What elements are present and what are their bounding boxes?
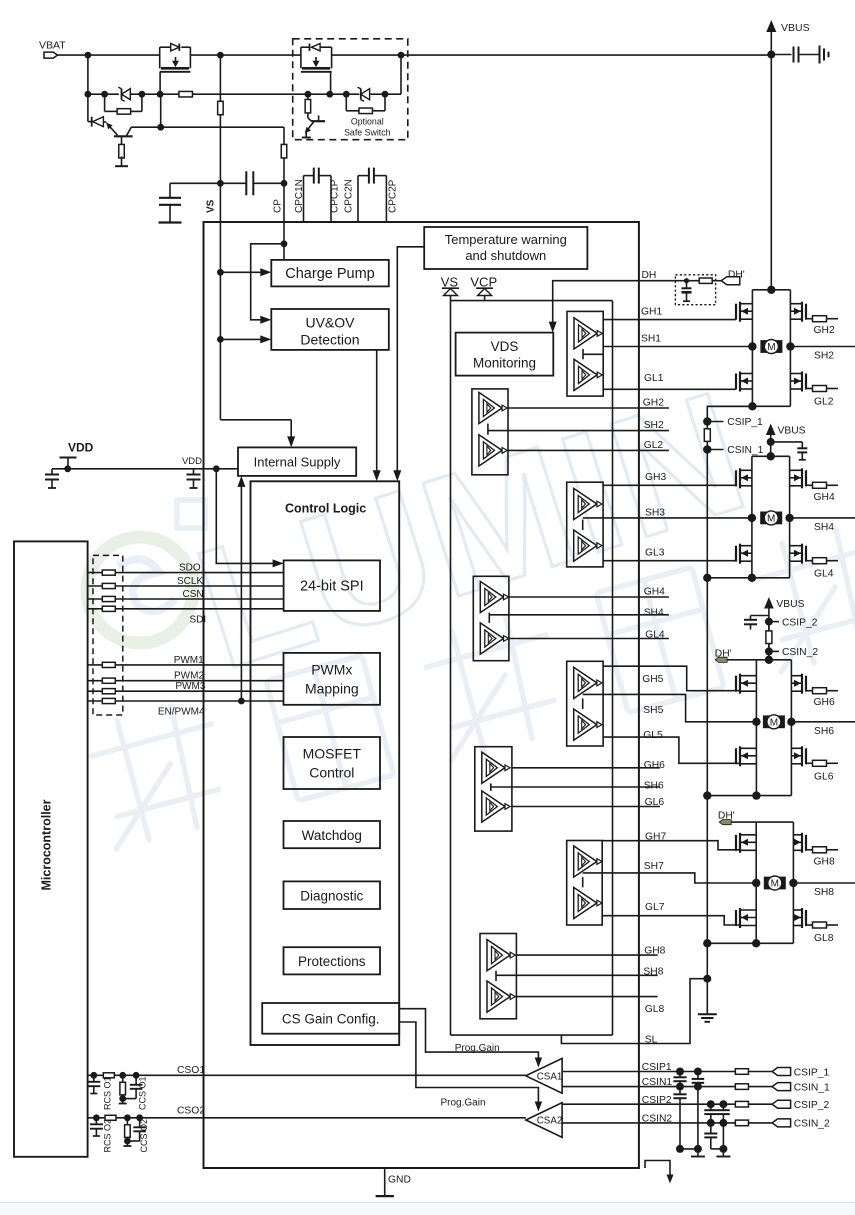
node SH left bridge 2 (748, 514, 756, 522)
resistor PWM3 series (102, 689, 115, 694)
wire filter2 gnd (711, 1148, 724, 1150)
svg-text:GL5: GL5 (643, 730, 663, 741)
svg-text:Internal Supply: Internal Supply (254, 454, 341, 469)
capacitor C8 DH (686, 281, 688, 289)
capacitor C6 VDD left (51, 469, 53, 475)
wire EN/PWM4 (88, 700, 284, 702)
buffer U8B (487, 981, 510, 1012)
svg-text:CSO1: CSO1 (177, 1065, 205, 1076)
svg-text:GL2: GL2 (814, 397, 834, 408)
transistor low-side right bridge 4 (805, 910, 807, 926)
transistor Q1 reverse-protection PMOS (159, 47, 161, 55)
bridge 1 top rail (752, 289, 790, 291)
svg-text:CSIN_2: CSIN_2 (782, 647, 818, 658)
motor bridge 3 (763, 715, 785, 728)
tag DH' top (721, 277, 740, 285)
block MOSFET Control (284, 737, 381, 789)
svg-text:CSIP1: CSIP1 (642, 1062, 672, 1073)
svg-text:EN/PWM4: EN/PWM4 (158, 707, 205, 718)
node DH filter (684, 278, 689, 283)
wire GL4 (509, 638, 669, 640)
svg-text:DH': DH' (715, 648, 732, 659)
dotted box DH filter (675, 275, 715, 305)
svg-text:Control Logic: Control Logic (285, 502, 366, 516)
node rail at VS resistor (217, 52, 224, 59)
wire SH6 out (791, 721, 855, 723)
wire U8 SH tap (495, 971, 497, 981)
wire SH2 out (790, 346, 855, 348)
node RCS O2 gnd (124, 1138, 131, 1145)
VBAT tag (44, 52, 58, 58)
wire SH8 out (793, 882, 855, 884)
bridge 4 bottom rail (707, 942, 793, 944)
resistor R5 VS feed (219, 55, 221, 101)
IC main outline (204, 222, 639, 1168)
wire arrow into UVOV 2 (220, 338, 260, 340)
node EN branch (238, 698, 245, 705)
watermark chinese characters (84, 520, 855, 849)
svg-text:SH2: SH2 (644, 420, 664, 431)
resistor CSN series (102, 596, 115, 601)
resistor gate GH6 (806, 690, 813, 692)
svg-text:GL2: GL2 (644, 440, 664, 451)
transistor high-side left bridge 2 (735, 470, 737, 486)
wire U2 SH tap (487, 424, 489, 435)
gate driver pair U5 box (567, 661, 603, 746)
wire GH5 (603, 666, 740, 691)
transistor high-side left bridge 3 (735, 676, 737, 692)
ground filter2 (722, 1149, 724, 1157)
wire CP internal (283, 222, 285, 260)
motor bridge 1 (760, 340, 782, 353)
svg-text:GL6: GL6 (814, 771, 834, 782)
transistor high-side right bridge 2 (805, 470, 807, 486)
resistor R3 (345, 94, 347, 111)
node safe gate C (343, 91, 350, 98)
node CSIP1 filter a (676, 1068, 684, 1076)
resistor PWM2 series (102, 678, 115, 683)
wire SH1 (603, 346, 752, 348)
resistor gate GL6 (806, 762, 813, 764)
svg-text:24-bit SPI: 24-bit SPI (300, 579, 364, 595)
zener D1 (122, 89, 131, 100)
block CS Gain Config (262, 1003, 399, 1034)
wire CSIN2 (562, 1122, 735, 1124)
node filter1 gnd b (694, 1145, 702, 1153)
svg-text:Control: Control (309, 765, 354, 781)
svg-text:CSN: CSN (183, 589, 204, 600)
svg-text:CPC2P: CPC2P (388, 179, 399, 213)
gate driver pair U6 box (475, 747, 512, 831)
svg-text:RCS O2: RCS O2 (103, 1119, 113, 1153)
wire SH4 out (790, 517, 855, 519)
node rail at safe-switch out (398, 52, 405, 59)
buffer U6B (482, 791, 505, 822)
bridge 3 top rail (756, 659, 791, 661)
capacitor C5 VBUS (771, 54, 791, 56)
wire SDO (88, 572, 284, 574)
wire VDD rail (52, 468, 238, 470)
node bottom rail bridge 1 (748, 402, 756, 410)
node CP branch (281, 240, 288, 247)
svg-text:VDD: VDD (68, 441, 94, 455)
node CSIN_2 (765, 647, 773, 655)
buffer U3A (574, 488, 597, 519)
wire collector to CP node (157, 124, 164, 131)
dashed box series resistors (93, 555, 123, 715)
svg-text:GL4: GL4 (814, 569, 834, 580)
block Watchdog (284, 821, 381, 848)
svg-text:Monitoring: Monitoring (473, 356, 536, 371)
bridge 4 right leg (792, 822, 794, 943)
diode D2 (88, 121, 92, 123)
wire GL8 (516, 996, 657, 998)
svg-text:CCS O1: CCS O1 (138, 1076, 148, 1110)
node VS to UVOV (217, 336, 224, 343)
wire U1 SH tap (582, 349, 584, 359)
pad ground step (645, 1161, 670, 1178)
transistor high-side right bridge 3 (805, 676, 807, 692)
node gate net C (139, 91, 146, 98)
svg-text:VCP: VCP (470, 275, 497, 290)
node rail B2 (703, 574, 711, 582)
capacitor C10 VBUS b3 (751, 615, 769, 617)
svg-text:PWM1: PWM1 (174, 655, 204, 666)
bridge 1 left leg (751, 290, 753, 407)
block Temperature warning (424, 227, 587, 269)
svg-text:SH6: SH6 (644, 781, 664, 792)
svg-text:DH: DH (642, 270, 657, 281)
wire SH5 (603, 694, 756, 721)
tag CSIN_2 (772, 1119, 791, 1127)
resistor CSO1 series (103, 1073, 114, 1078)
node CSIP2 filter b (719, 1100, 727, 1108)
wire filter1 gnd (680, 1148, 698, 1150)
svg-text:CPC2N: CPC2N (344, 179, 355, 213)
wire SH3 (603, 517, 752, 519)
svg-text:SH8: SH8 (814, 887, 834, 898)
node safe gate A (305, 91, 312, 98)
node CSIN1 filter a (676, 1083, 684, 1091)
svg-text:GH6: GH6 (814, 697, 835, 708)
buffer U6A (482, 752, 505, 783)
svg-text:GH2: GH2 (814, 325, 835, 336)
capacitor C1 VS bulk (170, 182, 220, 184)
transistor low-side left bridge 1 (735, 374, 737, 390)
safe switch dashed box (293, 39, 408, 140)
capacitor C4 flying 2 (357, 176, 359, 222)
wire prog gain 1 (399, 1009, 538, 1061)
svg-text:SH1: SH1 (641, 334, 661, 345)
ground RCS O1 (122, 1099, 124, 1104)
svg-text:GH4: GH4 (814, 492, 835, 503)
svg-text:GH5: GH5 (642, 674, 663, 685)
svg-text:Watchdog: Watchdog (302, 828, 362, 843)
svg-text:M: M (770, 717, 778, 728)
wire CSIP2 (562, 1103, 735, 1105)
node CSIP_2 (765, 618, 773, 626)
wire CSO1 (88, 1074, 526, 1076)
buffer U4A (480, 581, 503, 612)
capacitor C13 cm 1b (679, 1087, 681, 1095)
svg-text:CSIN_1: CSIN_1 (727, 445, 763, 456)
wire PWM1 (88, 664, 284, 666)
ground filter1 (697, 1149, 699, 1157)
block Control Logic (251, 481, 400, 1045)
block UV&OV Detection (271, 309, 389, 350)
wire CSO2 (88, 1117, 526, 1119)
svg-text:CSO2: CSO2 (177, 1106, 205, 1117)
resistor R6 CP feed (283, 127, 285, 144)
capacitor C3 flying 1 (303, 176, 305, 222)
resistor R4 (307, 94, 309, 99)
node CSIP_1 (703, 417, 711, 425)
block Charge Pump (271, 260, 389, 287)
resistor R1 gate (104, 94, 106, 111)
svg-text:VBUS: VBUS (776, 599, 804, 610)
svg-text:MOSFET: MOSFET (303, 746, 362, 762)
node CSIN2 filter a (707, 1119, 715, 1127)
svg-text:CSIP_1: CSIP_1 (794, 1067, 830, 1078)
svg-text:Charge Pump: Charge Pump (285, 266, 374, 282)
wire rail right (332, 54, 772, 56)
node VS to charge pump (217, 269, 224, 276)
wire VBUS down (770, 55, 772, 290)
svg-text:Microcontroller: Microcontroller (40, 799, 54, 890)
node gate net D (157, 91, 164, 98)
resistor R2 base (121, 136, 123, 146)
svg-text:CS Gain Config.: CS Gain Config. (282, 1012, 380, 1027)
node CSO1 c (133, 1072, 140, 1079)
block 24-bit SPI (284, 560, 380, 611)
transistor low-side left bridge 2 (735, 546, 737, 562)
node rail B3 (703, 791, 711, 799)
node CSO1 b (119, 1072, 126, 1079)
zener D3 (361, 89, 370, 100)
svg-text:DH': DH' (728, 270, 745, 281)
bridge 2 left leg (751, 456, 753, 578)
gate driver pair U4 box (473, 576, 509, 660)
svg-text:CPC1P: CPC1P (330, 179, 341, 213)
svg-text:CPC1N: CPC1N (294, 179, 305, 213)
wire U7 SH tap (582, 877, 584, 887)
bridge 1 right leg (789, 290, 791, 407)
VS terminal symbol (444, 289, 458, 296)
wire SL (561, 979, 707, 1044)
bridge 2 bottom rail (707, 577, 789, 579)
capacitor C14 diff 2 (710, 1104, 712, 1110)
wire CSIP1 (562, 1071, 735, 1073)
wire GH3 (603, 484, 736, 486)
capacitor CCS O1 (135, 1075, 137, 1085)
transistor high-side left bridge 4 (735, 835, 737, 851)
svg-text:GL7: GL7 (645, 902, 665, 913)
wire SH8 (516, 974, 657, 976)
node VBAT junction (85, 52, 92, 59)
wire VDD to SPI (216, 469, 273, 564)
node SH right bridge 4 (789, 879, 797, 887)
wire rail mid (190, 54, 301, 56)
svg-text:SH4: SH4 (814, 522, 834, 533)
node CSIP1 filter b (694, 1068, 702, 1076)
resistor CSIP2 series (735, 1101, 748, 1107)
wire UVOV to control logic (376, 350, 378, 475)
resistor RCS O1 (122, 1075, 124, 1082)
tag CSIN_1 (772, 1083, 791, 1091)
wire Q3 gate (330, 72, 332, 94)
svg-text:Safe Switch: Safe Switch (344, 128, 391, 138)
svg-text:SH2: SH2 (814, 351, 834, 362)
svg-text:CSA2: CSA2 (537, 1116, 563, 1127)
wire SCLK (88, 585, 284, 587)
svg-text:Diagnostic: Diagnostic (300, 888, 363, 903)
wire SH2 (508, 430, 669, 432)
svg-text:DH': DH' (718, 811, 735, 822)
wire GH6 (512, 767, 660, 769)
resistor SCLK series (102, 583, 115, 588)
transistor high-side right bridge 1 (805, 304, 807, 320)
node SH right bridge 2 (785, 514, 793, 522)
wire U6 SH tap (490, 783, 492, 791)
svg-text:UV&OV: UV&OV (305, 315, 355, 331)
node SH left bridge 1 (748, 342, 756, 350)
bridge 2 right leg (789, 456, 791, 578)
buffer U5B (574, 709, 597, 740)
bridge 2 top rail (752, 455, 790, 457)
bridge 4 top rail (756, 821, 793, 823)
wire EN to internal supply (240, 482, 242, 701)
VBUS arrow (770, 26, 772, 55)
node CSO2 a (93, 1114, 100, 1121)
resistor R8 gate series (179, 91, 193, 97)
wire GH4 (509, 596, 669, 598)
amplifier CSA2 (526, 1103, 562, 1138)
node CSIN2 filter b (719, 1119, 727, 1127)
buffer U7B (574, 887, 597, 918)
wire prog gain 2 (399, 1022, 538, 1105)
wire GH2 (508, 407, 669, 409)
wire arrow into charge pump (220, 271, 260, 273)
node CSIN1 filter b (694, 1083, 702, 1091)
ground VBUS rotated (819, 46, 821, 64)
svg-text:CSIN_1: CSIN_1 (794, 1082, 830, 1093)
capacitor C16 cm 2b (710, 1123, 712, 1134)
svg-text:GH1: GH1 (641, 307, 662, 318)
buffer U5A (574, 667, 597, 698)
wire GL1 (603, 388, 736, 390)
ground Q2 (115, 165, 128, 167)
page divider (0, 1202, 855, 1204)
svg-text:Detection: Detection (300, 332, 359, 348)
node VBUS b2 cap (767, 438, 775, 446)
gate driver pair U2 box (472, 389, 508, 475)
resistor CSIN2 series (735, 1120, 748, 1126)
wire U4 SH tap (488, 613, 490, 623)
svg-text:GH2: GH2 (643, 397, 664, 408)
transistor high-side right bridge 4 (805, 835, 807, 851)
capacitor C7 VDD pin (193, 469, 195, 475)
svg-text:SDO: SDO (179, 563, 201, 574)
node SH right bridge 3 (787, 718, 795, 726)
ground C1 (159, 221, 182, 223)
svg-text:CSIP_2: CSIP_2 (782, 617, 818, 628)
resistor Rsense1 (706, 422, 708, 429)
svg-text:PWM3: PWM3 (175, 681, 205, 692)
capacitor C2 CP pump (220, 182, 246, 184)
wire SH4 (509, 614, 669, 616)
wire VBAT rail (58, 54, 160, 56)
gate driver pair U7 box (567, 841, 603, 926)
svg-text:SH3: SH3 (645, 507, 665, 518)
node gate net B (101, 91, 108, 98)
svg-text:M: M (767, 342, 775, 353)
ground RCS O2 (126, 1141, 128, 1146)
resistor PWM1 series (102, 662, 115, 667)
svg-text:SH5: SH5 (643, 705, 663, 716)
block Protections (284, 947, 381, 974)
wire common source rail (706, 450, 708, 979)
node CSIN_2 rail (765, 656, 773, 664)
svg-text:GL8: GL8 (814, 933, 834, 944)
wire GH1 (603, 319, 736, 321)
gate driver pair U1 box (567, 311, 603, 396)
wire PWM3 (88, 690, 284, 692)
resistor SDI series (102, 606, 115, 611)
svg-text:SCLK: SCLK (177, 576, 203, 587)
wire SDI (88, 608, 284, 610)
wire DH internal (553, 281, 639, 326)
resistor RCS O2 (126, 1118, 128, 1125)
node CP cap (281, 180, 288, 187)
VDD terminal (60, 457, 77, 459)
svg-text:CSIP_2: CSIP_2 (794, 1100, 830, 1111)
node bottom rail bridge 3 (752, 791, 760, 799)
ground Q4 (302, 137, 311, 139)
bridge 3 bottom rail (707, 795, 791, 797)
bridge 4 left leg (755, 822, 757, 943)
node VS cap (217, 180, 224, 187)
block Diagnostic (284, 881, 381, 909)
svg-text:SL: SL (645, 1035, 658, 1046)
wire temp to control logic (397, 247, 424, 475)
GND stub (384, 1168, 386, 1196)
svg-text:VDD: VDD (182, 456, 202, 467)
bridge 3 right leg (790, 660, 792, 796)
svg-text:GH8: GH8 (644, 945, 665, 956)
svg-text:VS: VS (441, 275, 459, 290)
resistor R7 DH (699, 278, 712, 283)
resistor gate GH8 (806, 849, 813, 851)
node SL ground (703, 975, 711, 983)
resistor EN/PWM4 series (102, 698, 115, 703)
transistor low-side left bridge 3 (735, 748, 737, 764)
motor bridge 2 (760, 512, 782, 525)
svg-text:GH7: GH7 (645, 831, 666, 842)
bridge 3 left leg (755, 660, 757, 796)
resistor gate GL8 (806, 924, 813, 926)
buffer U2A (479, 392, 502, 423)
ground SL (706, 979, 708, 1015)
node gate net A (85, 91, 92, 98)
svg-text:Prog.Gain: Prog.Gain (455, 1043, 500, 1054)
svg-text:GL8: GL8 (645, 1004, 665, 1015)
svg-text:VDS: VDS (491, 339, 519, 354)
gate driver pair U8 box (480, 934, 516, 1019)
node SH right bridge 1 (786, 342, 794, 350)
svg-text:CSIN_2: CSIN_2 (794, 1119, 830, 1130)
amplifier CSA1 (526, 1058, 562, 1093)
svg-text:VBUS: VBUS (778, 426, 806, 437)
